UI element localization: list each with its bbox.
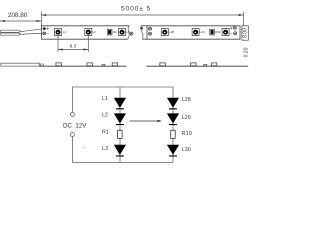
svg-text:+’: +’ bbox=[83, 145, 86, 149]
svg-text:R10: R10 bbox=[215, 30, 221, 34]
svg-text:L30: L30 bbox=[182, 147, 191, 153]
svg-text:208.80: 208.80 bbox=[8, 12, 28, 19]
svg-text:8.3: 8.3 bbox=[70, 43, 77, 48]
svg-text:L3: L3 bbox=[102, 146, 108, 152]
svg-text:L2: L2 bbox=[92, 30, 96, 34]
svg-text:−: − bbox=[46, 31, 49, 37]
svg-text:L28: L28 bbox=[169, 30, 174, 34]
svg-text:−: − bbox=[230, 31, 233, 37]
svg-text:R10: R10 bbox=[182, 131, 192, 137]
svg-text:L2: L2 bbox=[102, 113, 108, 119]
svg-text:L3: L3 bbox=[126, 30, 130, 34]
svg-text:L1: L1 bbox=[63, 30, 67, 34]
svg-text:L1: L1 bbox=[102, 96, 108, 102]
svg-text:L29: L29 bbox=[182, 115, 191, 121]
svg-text:L28: L28 bbox=[182, 97, 191, 103]
svg-text:8.00: 8.00 bbox=[243, 28, 249, 38]
svg-text:L29: L29 bbox=[200, 30, 205, 34]
svg-text:DC 12V: DC 12V bbox=[63, 122, 87, 129]
svg-text:5000± 5: 5000± 5 bbox=[121, 6, 151, 13]
svg-text:R1: R1 bbox=[113, 30, 117, 34]
svg-text:0.20: 0.20 bbox=[244, 47, 250, 57]
svg-text:R1: R1 bbox=[102, 130, 109, 136]
